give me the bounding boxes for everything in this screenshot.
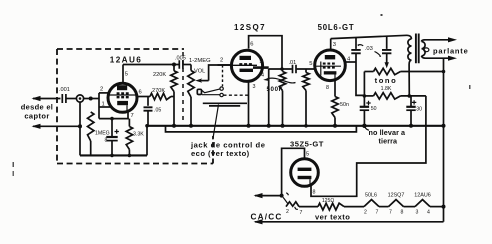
svg-text:ver texto: ver texto — [315, 213, 350, 222]
svg-text:7: 7 — [389, 210, 392, 216]
svg-text:7: 7 — [376, 210, 379, 216]
wire connector to grid — [84, 98, 99, 100]
heater 12SQ7 pins 7-8 — [388, 193, 405, 216]
heater 50L6 pins 2-7 — [364, 193, 379, 216]
pin 8 label 35Z5 — [313, 190, 316, 196]
svg-text:5: 5 — [306, 152, 309, 158]
svg-text:30: 30 — [416, 106, 422, 112]
svg-text:12SQ7: 12SQ7 — [388, 193, 405, 199]
dashed enclosure box — [57, 49, 213, 164]
capacitor C .03 left — [351, 38, 364, 96]
transformer T1 secondary — [422, 40, 426, 58]
wire plate to coupling cap — [123, 64, 179, 66]
pin 4 label 50L6 — [347, 57, 351, 63]
pin 5 plate wire — [122, 65, 124, 84]
wire heater chain 2 — [344, 206, 364, 208]
capacitor C .01 label — [289, 60, 297, 66]
capacitor C8 electrolytic 8uF — [105, 117, 119, 157]
wire B+ rail to transformer — [331, 35, 407, 38]
svg-text:2: 2 — [220, 58, 223, 64]
svg-text:3: 3 — [253, 84, 256, 90]
potentiometer VOL 1-2MEG label — [189, 58, 211, 75]
svg-text:1.8K: 1.8K — [381, 86, 392, 92]
pin 5 label 35Z5 — [306, 152, 309, 158]
pin 2 grid wire 12SQ7 — [218, 64, 231, 66]
svg-text:.005: .005 — [175, 56, 186, 62]
wire line lower with arrow — [254, 219, 444, 224]
resistor R 500K — [267, 69, 286, 128]
input wire bottom with arrow — [32, 124, 83, 129]
heater 35Z5 pins 2-7 — [286, 202, 303, 216]
resistor R 50 ohm cathode — [332, 80, 349, 127]
svg-text:7: 7 — [300, 210, 303, 216]
tube U3 50L6-GT label — [318, 23, 355, 32]
op-amp, er, tube envelope 12AU6 — [108, 83, 137, 112]
svg-text:tono: tono — [375, 76, 398, 85]
pin 3 label — [253, 84, 256, 90]
speaker terminal oval — [424, 48, 429, 52]
svg-text:.001: .001 — [59, 87, 70, 93]
svg-text:2: 2 — [100, 87, 103, 93]
svg-text:4: 4 — [427, 210, 430, 216]
svg-text:8: 8 — [326, 85, 329, 91]
wire bus parallel loop — [166, 126, 357, 132]
svg-text:4: 4 — [261, 73, 264, 79]
tube 12SQ7 grid dashes — [232, 64, 258, 65]
jack frame line upper — [203, 102, 247, 104]
capacitor C .001 — [62, 94, 76, 103]
wire heater chain 1 — [299, 206, 318, 208]
svg-text:3: 3 — [333, 42, 336, 48]
shielded connector — [76, 95, 83, 102]
jack frame line lower — [209, 105, 240, 107]
capacitor C 50uF electrolytic — [360, 96, 377, 128]
scan speck marks — [13, 14, 471, 176]
pin 2 label — [100, 87, 103, 93]
wire cathode bottom bus — [80, 154, 147, 156]
wire heater chain 3 — [379, 206, 389, 208]
svg-text:eco (ver texto): eco (ver texto) — [191, 149, 250, 158]
tube envelope 50L6 — [315, 50, 346, 81]
resistor R 270K — [137, 93, 174, 99]
tube U2 12SQ7 label — [234, 23, 266, 32]
wire cathode riser to bus — [146, 126, 148, 156]
svg-text:8: 8 — [105, 138, 108, 144]
jack label pointer — [213, 105, 219, 140]
capacitor C .05 — [144, 97, 162, 126]
pot wiper arrow — [195, 65, 231, 83]
tube 50L6 cathode — [324, 71, 337, 80]
svg-text:3.3K: 3.3K — [133, 132, 144, 138]
svg-text:.03: .03 — [365, 46, 373, 52]
tube U4 35Z5-GT label — [290, 140, 324, 149]
tube 35Z5 plate bar — [298, 168, 312, 171]
jack text label — [190, 141, 265, 159]
node 220K on bus — [172, 124, 176, 128]
pin 8 label 50L6 — [326, 85, 329, 91]
tube U1 12AU6 label — [110, 56, 143, 65]
tono label — [375, 76, 398, 92]
svg-text:.05: .05 — [154, 108, 161, 114]
tube envelope 12SQ7 — [231, 50, 262, 81]
svg-text:6: 6 — [139, 90, 142, 96]
svg-text:12AU6: 12AU6 — [110, 56, 143, 65]
node detector junction — [280, 67, 284, 71]
pot wiper arrow 500K — [263, 78, 295, 83]
svg-text:1MEG: 1MEG — [95, 131, 110, 137]
speaker label parlante — [433, 47, 469, 56]
label no llevar a tierra — [365, 127, 406, 146]
pin 5 label — [125, 72, 128, 78]
pin 3 label 50L6 — [333, 42, 336, 48]
svg-text:VOL: VOL — [194, 69, 205, 75]
svg-text:12SQ7: 12SQ7 — [234, 23, 266, 32]
potentiometer tono — [364, 68, 443, 96]
tube 50L6 beam plate — [320, 62, 322, 76]
capacitor C .03 label with arrows — [358, 45, 382, 57]
pin 5 label 50L6 — [309, 61, 312, 67]
pin 6 label — [139, 90, 142, 96]
svg-text:12AU6: 12AU6 — [414, 193, 430, 199]
pin 3 cathode drop — [247, 82, 251, 128]
wire heater chain 4 — [404, 206, 416, 208]
input wire top with arrow — [32, 96, 61, 101]
svg-text:3: 3 — [416, 210, 419, 216]
svg-text:50: 50 — [371, 106, 377, 112]
tube envelope 35Z5 — [291, 159, 319, 187]
node bus end — [362, 124, 366, 128]
svg-text:desde el: desde el — [21, 103, 53, 112]
resistor R grid 50L6 — [303, 69, 309, 128]
svg-text:50n: 50n — [340, 102, 349, 108]
pin 6 plate path — [249, 36, 282, 69]
tube 12AU6 grid dashes — [109, 93, 137, 97]
wire B+ stepped path — [311, 96, 426, 196]
wire grid tie vertical — [98, 93, 100, 119]
resistor R 125 ohm — [318, 203, 344, 210]
pin 7 label — [131, 113, 134, 119]
wire speaker lower with arrow — [425, 56, 458, 61]
resistor R 1MEG — [88, 112, 110, 155]
jack switch upper contact — [202, 87, 224, 93]
capacitor C .005 coupling — [179, 60, 191, 69]
svg-text:5: 5 — [260, 59, 263, 65]
resistor R 1.8K filter — [363, 93, 426, 99]
dashed wire jack to cathode line — [224, 94, 249, 96]
wire heater chain end — [430, 205, 446, 209]
pin 3 plate riser — [330, 39, 332, 51]
wire cathode tee — [99, 118, 129, 120]
label ver texto — [315, 213, 350, 222]
svg-text:2: 2 — [286, 209, 289, 215]
potentiometer VOL 1-2MEG — [188, 65, 194, 126]
svg-text:CA/CC: CA/CC — [251, 213, 283, 222]
pin 7 stub wire — [127, 111, 129, 119]
switch lever — [283, 193, 288, 204]
svg-text:50L6: 50L6 — [365, 193, 377, 199]
svg-text:tierra: tierra — [379, 137, 398, 146]
input label desde el captor — [21, 103, 53, 121]
resistor R 220K label — [153, 72, 166, 78]
jack switch lower contact — [202, 93, 224, 96]
node junction 1MEG tap — [89, 97, 93, 101]
transformer T1 primary — [407, 35, 412, 95]
pin 1 label — [102, 102, 105, 108]
svg-text:220K: 220K — [153, 72, 166, 78]
svg-text:2: 2 — [364, 210, 367, 216]
tube 50L6 grid dashes — [316, 64, 341, 68]
pin 6 label — [250, 42, 253, 48]
tube 12SQ7 plate — [240, 56, 252, 60]
tube 50L6 plate — [325, 55, 335, 59]
svg-text:500K: 500K — [267, 86, 284, 93]
svg-text:8: 8 — [401, 210, 404, 216]
wire diode to cap — [269, 68, 292, 70]
tube 12SQ7 diode bar — [253, 59, 269, 79]
node grid 12SQ7 label 2 — [220, 58, 223, 64]
capacitor C .001 label — [59, 87, 70, 93]
wire main B- bus — [145, 124, 443, 128]
pin 4 screen stub — [345, 61, 356, 63]
capacitor C .005 label — [175, 56, 186, 62]
tube 12AU6 cathode — [117, 101, 128, 111]
jack plug body — [197, 89, 201, 94]
svg-text:5: 5 — [309, 61, 312, 67]
svg-text:6: 6 — [250, 42, 253, 48]
svg-text:1-2MEG: 1-2MEG — [189, 58, 211, 64]
wire right rail — [442, 58, 446, 222]
svg-text:7: 7 — [131, 113, 134, 119]
wire shield ground drop — [79, 102, 81, 155]
svg-text:parlante: parlante — [433, 47, 469, 56]
node pot on bus — [189, 124, 193, 128]
svg-text:captor: captor — [24, 112, 49, 121]
capacitor C .03 right — [382, 36, 391, 68]
svg-text:5: 5 — [125, 72, 128, 78]
label CA/CC — [251, 213, 283, 222]
tube 12AU6 plate — [117, 85, 127, 90]
resistor R 125 ohm label — [322, 198, 334, 204]
tube 12SQ7 cathode — [240, 69, 254, 72]
resistor R 3.3K cathode — [126, 119, 144, 158]
wire line upper with arrow — [254, 193, 284, 198]
node plate junction — [172, 63, 176, 67]
capacitor C 30uF electrolytic — [406, 96, 422, 128]
svg-text:35Z5-GT: 35Z5-GT — [290, 140, 324, 149]
wire speaker upper with arrow — [424, 37, 458, 42]
pin 5 plate path — [282, 148, 305, 195]
wire diode bar drop — [267, 69, 271, 128]
heater 12AU6 pins 3-4 — [414, 193, 430, 216]
svg-text:8: 8 — [313, 190, 316, 196]
resistor R 220K — [171, 65, 177, 126]
transformer T1 core — [416, 34, 419, 64]
resistor R 270K label — [152, 88, 165, 94]
capacitor C .01 — [293, 65, 316, 73]
pin 1 stub wire — [99, 106, 111, 108]
svg-text:50L6-GT: 50L6-GT — [318, 23, 355, 32]
tube 35Z5 cathode bar — [298, 176, 312, 185]
pin 2 stub wire — [99, 92, 109, 94]
dashed wire to jack contact — [222, 65, 224, 86]
